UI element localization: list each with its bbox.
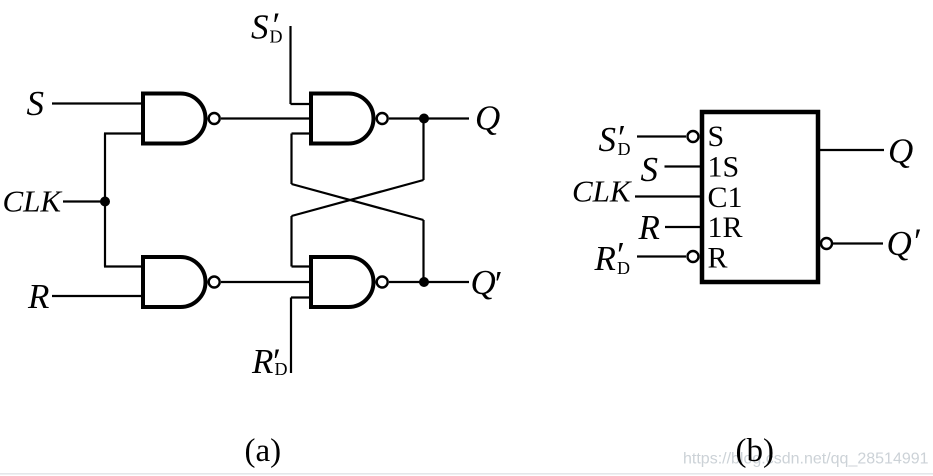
nand gate G1 (top-left) [143, 94, 205, 144]
nand gate G3 (bottom-left) [143, 257, 205, 307]
wire SD' jog into G2 [291, 103, 312, 105]
node CLK junction [100, 197, 110, 207]
svg-text:D: D [618, 139, 631, 159]
svg-text:1S: 1S [708, 151, 740, 184]
wire vertical left lower [290, 216, 292, 267]
svg-text:R: R [708, 242, 728, 275]
svg-text:Q: Q [888, 132, 913, 171]
svg-text:C1: C1 [708, 181, 743, 214]
bottom faint line [0, 473, 933, 475]
svg-text:R: R [594, 239, 616, 278]
bubble G3 [209, 277, 220, 288]
pin SD' bubble [688, 131, 699, 142]
svg-text:CLK: CLK [572, 174, 633, 209]
wire SD' vertical [289, 26, 291, 104]
svg-text:Q: Q [887, 224, 912, 263]
wire vertical Q down [422, 119, 424, 181]
pin RD' bubble [688, 251, 699, 262]
wire cross diagonal Q-to-G4 [292, 180, 424, 216]
svg-text:D: D [275, 359, 288, 379]
svg-text:S: S [599, 120, 617, 159]
svg-text:′: ′ [914, 221, 922, 261]
pin Q' lead [833, 242, 883, 244]
wire S lead [52, 102, 143, 104]
pin S lead [665, 165, 703, 167]
bubble G4 [377, 277, 388, 288]
bubble G1 [209, 113, 220, 124]
wire CLK vertical branch [104, 134, 106, 267]
pin RD' lead [637, 255, 686, 257]
svg-text:′: ′ [495, 264, 503, 304]
pin Q' bubble [821, 238, 832, 249]
wire R lead [52, 295, 143, 297]
svg-text:S: S [27, 84, 45, 123]
svg-text:(a): (a) [245, 433, 282, 469]
svg-text:1R: 1R [708, 211, 743, 244]
wire G1 output to G2 [221, 117, 311, 119]
pin CLK lead [635, 195, 702, 197]
wire G3 output to G4 [221, 281, 311, 283]
wire gate3 upper input jog [104, 265, 143, 267]
svg-text:https://blog.csdn.net/qq_28514: https://blog.csdn.net/qq_28514991 [683, 451, 929, 468]
node Q junction [419, 114, 429, 124]
wire RD' jog into G4 [291, 296, 311, 298]
svg-text:S: S [251, 8, 269, 47]
wire G2 feedback lower jog [292, 132, 312, 134]
svg-text:CLK: CLK [3, 184, 64, 219]
wire G2 output to Q [389, 117, 469, 119]
svg-text:R: R [251, 342, 273, 381]
nand gate G4 (bottom-right) [311, 257, 374, 307]
pin Q lead [818, 149, 884, 151]
bubble G2 [377, 113, 388, 124]
wire G4 output to Q' [389, 281, 469, 283]
svg-text:S: S [641, 150, 659, 189]
wire gate1 lower input jog [104, 132, 143, 134]
nand gate G2 (top-right) [311, 94, 373, 144]
wire CLK lead [63, 200, 106, 202]
svg-text:R: R [27, 277, 49, 316]
wire feedback vertical upper-left [290, 134, 292, 185]
pin R lead [665, 226, 702, 228]
wire vertical right lower to Q' [422, 220, 424, 282]
svg-text:D: D [270, 27, 283, 47]
svg-text:S: S [708, 120, 725, 153]
svg-text:(b): (b) [736, 433, 774, 469]
svg-text:Q: Q [475, 99, 500, 138]
wire RD' vertical [290, 298, 292, 374]
wire cross diagonal Q'-to-G2 [292, 184, 424, 220]
node Q' junction [419, 277, 429, 287]
block U1 rectangle [702, 112, 818, 282]
pin SD' lead [637, 135, 686, 137]
svg-text:R: R [638, 208, 660, 247]
svg-text:Q: Q [471, 263, 496, 302]
wire G4 top jog [292, 265, 312, 267]
svg-text:D: D [617, 258, 630, 278]
